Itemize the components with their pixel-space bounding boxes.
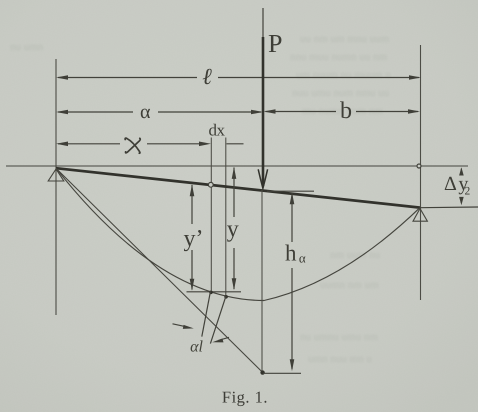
arrow l right — [409, 75, 421, 80]
svg-text:αl: αl — [190, 339, 203, 356]
leader arrow to dl left mark — [173, 324, 188, 327]
dimension line x — [58, 143, 199, 145]
dimension h_a — [291, 193, 293, 369]
dimension y — [233, 168, 235, 290]
wire: extension line at x (left of dx strip) — [210, 138, 212, 291]
dimension line b — [266, 111, 419, 113]
svg-text:b: b — [340, 98, 352, 124]
leader arrow to dl right mark — [219, 337, 230, 340]
node: funicular vertex dot — [260, 370, 264, 374]
node: small circle on baseline near B — [417, 164, 421, 168]
arrow a right — [251, 110, 263, 115]
support B triangle — [413, 209, 427, 222]
dimension line a — [58, 111, 261, 113]
node: baseline (original axis) — [6, 165, 468, 167]
svg-text:nu umn: nu umn — [10, 41, 44, 53]
load line P (thin upper part) — [262, 8, 264, 38]
wire: right extension line at support B — [420, 45, 422, 300]
node: curve point at x — [209, 291, 213, 295]
svg-text:Fig. 1.: Fig. 1. — [222, 388, 268, 407]
arrow b left — [264, 109, 276, 114]
svg-text:umn nuu mn u: umn nuu mn u — [308, 353, 372, 365]
svg-text:um nuum nu muum n: um nuum nu muum n — [296, 69, 391, 81]
svg-text:h: h — [285, 241, 297, 266]
arrow y' top — [190, 184, 195, 196]
arrow y' bottom — [190, 279, 195, 291]
svg-text:α: α — [299, 251, 306, 266]
arrow y bottom — [232, 278, 237, 290]
arrow h_a bottom — [290, 359, 295, 371]
tick under h_a (bottom reference) — [263, 372, 301, 374]
dimension line l — [58, 77, 419, 79]
arc mark dl (right) — [210, 296, 226, 344]
arrow x left — [56, 142, 68, 147]
svg-text:P: P — [268, 29, 282, 58]
svg-text:ℓ: ℓ — [202, 64, 212, 89]
svg-text:y’: y’ — [184, 226, 204, 252]
svg-text:nm uum nu: nm uum nu — [330, 249, 381, 261]
arc mark dl (left) — [202, 291, 211, 336]
tick at chord level (top reference of h_a) — [267, 190, 314, 192]
arrow h_a top — [290, 192, 295, 204]
svg-text:uumn nm um: uumn nm um — [320, 279, 379, 291]
arrow y top — [232, 167, 237, 179]
arrow a left — [56, 110, 68, 115]
svg-text:α: α — [140, 101, 151, 123]
svg-text:nnu muu numn uu nm: nnu muu numn uu nm — [290, 51, 388, 63]
ghost show-through text — [10, 33, 391, 365]
arrow l left — [56, 75, 68, 80]
dimension tail dx — [227, 143, 244, 145]
arrow b right — [408, 109, 420, 114]
dimension y' — [191, 185, 193, 290]
wire: extension line at x+dx (right of dx strip) — [225, 138, 227, 296]
svg-text:2: 2 — [465, 186, 471, 198]
svg-text:y: y — [227, 216, 239, 242]
arrowhead of P (open barbed) — [258, 169, 267, 188]
node: curve point at x+dx — [224, 295, 228, 299]
support A triangle — [48, 169, 64, 181]
funicular line A to load point — [56, 168, 263, 372]
node: small circle on chord at x — [208, 182, 213, 187]
dimension Delta y2 arrows — [460, 169, 462, 175]
svg-text:uu nm um mnu uum: uu nm um mnu uum — [300, 33, 390, 45]
label x (hand-lettered strokes) — [125, 138, 140, 153]
tick reference for y and y' — [187, 291, 242, 293]
sag curve (left branch + right branch) — [56, 168, 420, 300]
load line P (thick shaft) — [262, 37, 265, 186]
wire: thin vertical below P to funicular vertex — [261, 190, 263, 372]
svg-text:nu umnu umu nm: nu umnu umu nm — [300, 331, 378, 343]
tick: lowered support level at B — [420, 206, 478, 209]
chord A-B (displaced straight member) — [56, 168, 420, 207]
arrow x right — [199, 142, 211, 147]
svg-text:dx: dx — [209, 121, 226, 140]
wire: left extension line at support A — [55, 59, 57, 315]
